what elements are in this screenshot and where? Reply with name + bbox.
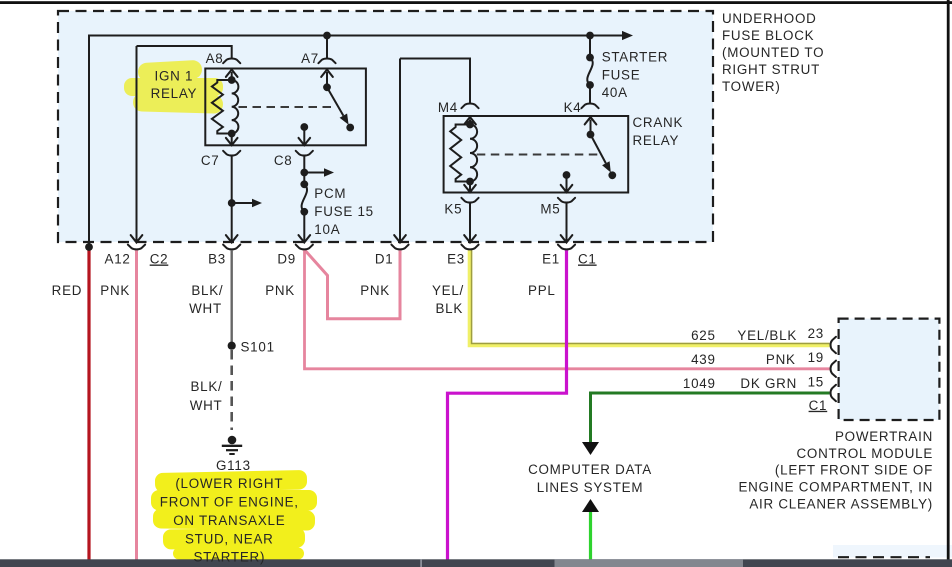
svg-text:PNK: PNK: [766, 352, 796, 367]
svg-text:BLK/: BLK/: [191, 283, 223, 298]
svg-text:K4: K4: [564, 100, 582, 115]
svg-text:PNK: PNK: [360, 283, 390, 298]
svg-text:FRONT OF ENGINE,: FRONT OF ENGINE,: [160, 495, 299, 510]
svg-text:FUSE 15: FUSE 15: [314, 204, 374, 219]
svg-text:YEL/: YEL/: [432, 283, 464, 298]
svg-text:LINES SYSTEM: LINES SYSTEM: [537, 480, 643, 495]
svg-text:STARTER): STARTER): [193, 550, 265, 565]
svg-text:COMPUTER DATA: COMPUTER DATA: [528, 462, 652, 477]
svg-text:AIR CLEANER ASSEMBLY): AIR CLEANER ASSEMBLY): [749, 497, 933, 512]
svg-text:D1: D1: [375, 252, 394, 267]
svg-text:ON TRANSAXLE: ON TRANSAXLE: [173, 513, 285, 528]
svg-text:WHT: WHT: [189, 301, 222, 316]
svg-text:A7: A7: [301, 51, 319, 66]
svg-text:YEL/BLK: YEL/BLK: [737, 328, 797, 343]
svg-text:C2: C2: [150, 252, 169, 267]
svg-text:RELAY: RELAY: [151, 86, 198, 101]
svg-text:CONTROL MODULE: CONTROL MODULE: [797, 446, 933, 461]
svg-text:BLK/: BLK/: [190, 379, 222, 394]
svg-text:WHT: WHT: [190, 398, 223, 413]
svg-text:23: 23: [808, 326, 824, 341]
svg-text:FUSE BLOCK: FUSE BLOCK: [722, 28, 814, 43]
svg-text:(LOWER RIGHT: (LOWER RIGHT: [175, 476, 283, 491]
svg-text:TOWER): TOWER): [722, 79, 781, 94]
svg-text:1049: 1049: [683, 376, 716, 391]
svg-text:RELAY: RELAY: [633, 133, 680, 148]
svg-text:40A: 40A: [602, 85, 628, 100]
svg-text:19: 19: [808, 350, 824, 365]
svg-text:ENGINE COMPARTMENT, IN: ENGINE COMPARTMENT, IN: [738, 480, 933, 495]
svg-text:A8: A8: [206, 51, 224, 66]
svg-text:IGN 1: IGN 1: [155, 68, 194, 83]
svg-text:STUD, NEAR: STUD, NEAR: [185, 531, 274, 546]
svg-text:DK GRN: DK GRN: [740, 376, 797, 391]
svg-text:CRANK: CRANK: [633, 115, 684, 130]
svg-text:B3: B3: [208, 252, 226, 267]
svg-text:E1: E1: [542, 252, 560, 267]
svg-text:C1: C1: [809, 398, 828, 413]
svg-text:625: 625: [691, 328, 716, 343]
svg-text:BLK: BLK: [435, 301, 463, 316]
svg-text:(LEFT FRONT SIDE OF: (LEFT FRONT SIDE OF: [775, 463, 933, 478]
svg-text:FUSE: FUSE: [602, 67, 641, 82]
svg-text:PNK: PNK: [100, 283, 130, 298]
svg-text:POWERTRAIN: POWERTRAIN: [835, 429, 933, 444]
svg-text:M4: M4: [438, 100, 458, 115]
svg-text:K5: K5: [444, 202, 462, 217]
svg-text:PNK: PNK: [265, 283, 295, 298]
svg-text:C8: C8: [274, 153, 293, 168]
svg-text:S101: S101: [241, 339, 275, 354]
svg-text:PCM: PCM: [314, 186, 346, 201]
svg-text:STARTER: STARTER: [602, 49, 669, 64]
svg-text:D9: D9: [277, 252, 296, 267]
svg-text:A12: A12: [105, 252, 131, 267]
svg-text:(MOUNTED TO: (MOUNTED TO: [722, 45, 824, 60]
svg-text:M5: M5: [540, 202, 560, 217]
svg-text:UNDERHOOD: UNDERHOOD: [722, 11, 817, 26]
svg-text:439: 439: [691, 352, 716, 367]
svg-text:G113: G113: [216, 458, 251, 473]
svg-text:PPL: PPL: [528, 283, 556, 298]
svg-text:10A: 10A: [314, 222, 340, 237]
svg-text:RIGHT STRUT: RIGHT STRUT: [722, 62, 820, 77]
svg-text:C7: C7: [201, 153, 220, 168]
svg-text:RED: RED: [52, 283, 83, 298]
svg-text:E3: E3: [447, 252, 465, 267]
svg-text:15: 15: [808, 374, 824, 389]
svg-text:C1: C1: [578, 252, 597, 267]
